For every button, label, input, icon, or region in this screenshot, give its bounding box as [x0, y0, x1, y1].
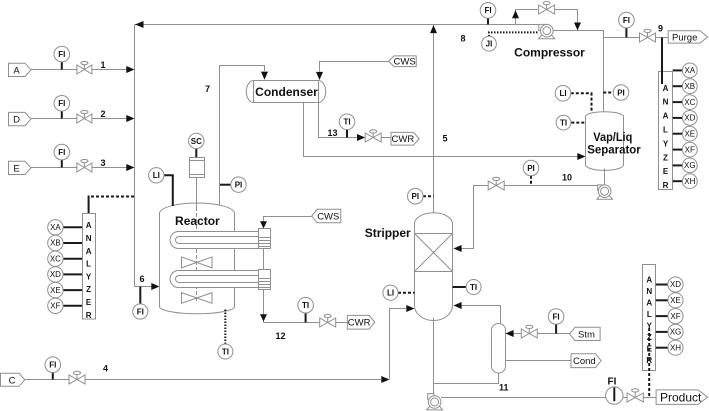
svg-text:FI: FI: [49, 361, 56, 370]
wire stream4 riser to stripper: [390, 309, 407, 380]
temp indicator TI separator: [556, 115, 585, 130]
svg-text:XG: XG: [670, 328, 682, 337]
svg-text:Compressor: Compressor: [514, 46, 585, 60]
svg-text:XB: XB: [684, 82, 695, 91]
svg-text:TI: TI: [560, 119, 567, 128]
arrow stream3 into header: [126, 164, 134, 171]
arrow feed into separator: [577, 153, 585, 160]
wire Stm line: [514, 333, 570, 335]
wire main header vertical: [134, 25, 136, 287]
valve Stm: [521, 325, 537, 338]
svg-text:FI: FI: [58, 148, 65, 157]
analyzer2 XC: [673, 95, 697, 110]
svg-text:L: L: [663, 126, 668, 135]
svg-text:A: A: [646, 275, 652, 284]
arrow recycle into header: [135, 21, 144, 28]
svg-text:R: R: [86, 311, 92, 320]
svg-text:4: 4: [103, 364, 108, 374]
svg-text:2: 2: [101, 109, 106, 119]
arrow CWS into condenser: [316, 72, 323, 80]
svg-text:C: C: [9, 375, 16, 386]
wire recycle top line: [135, 24, 541, 26]
wire product line2: [623, 397, 656, 399]
valve stream 4: [69, 371, 85, 384]
svg-text:L: L: [647, 310, 652, 319]
temp indicator TI reactor: [218, 310, 233, 360]
wire CWS to condenser: [320, 62, 389, 72]
CWS tag reactor: [312, 209, 341, 223]
valve product: [627, 389, 643, 402]
svg-text:TI: TI: [222, 347, 229, 356]
feed tag E: [9, 161, 32, 174]
analyzer2 XD: [673, 111, 697, 126]
arrow stream4 into stripper: [406, 305, 414, 312]
svg-text:XC: XC: [50, 254, 61, 263]
pressure indicator PI reactor: [219, 177, 246, 192]
analyzer2 sample line: [661, 38, 663, 85]
CWR tag reactor: [347, 315, 375, 329]
arrow stream1 into header: [126, 66, 134, 73]
level indicator LI separator: [555, 86, 591, 113]
wire stream 2: [31, 118, 133, 120]
arrow Stm into reboiler: [506, 330, 514, 337]
product tag: [656, 390, 708, 405]
svg-text:Z: Z: [663, 153, 668, 162]
wire stream 5 riser: [433, 25, 435, 214]
svg-text:LI: LI: [153, 171, 160, 180]
svg-text:FI: FI: [608, 376, 617, 387]
feed tag C: [1, 373, 25, 386]
wire purge line: [604, 37, 669, 39]
svg-text:JI: JI: [486, 40, 493, 49]
svg-text:D: D: [13, 115, 20, 126]
svg-text:XH: XH: [670, 343, 681, 352]
analyzer2 XE: [673, 126, 697, 141]
analyzer3 XG: [656, 324, 683, 339]
valve stream 10: [488, 177, 504, 190]
flow indicator FI compressor suction: [480, 3, 496, 25]
arrow into valve 13: [357, 134, 365, 141]
flow indicator FI product: [606, 376, 623, 404]
analyzer1 box: [83, 214, 96, 320]
arrow CWS into block1: [260, 221, 267, 228]
wire condenser outlet to separator: [304, 103, 578, 157]
flow indicator FI stream2: [54, 96, 70, 119]
wire bypass riser: [516, 10, 538, 25]
arrow bypass down into discharge: [574, 23, 581, 31]
wire condenser CWR line 13: [319, 103, 357, 138]
svg-text:XH: XH: [684, 177, 695, 186]
svg-text:N: N: [86, 234, 92, 243]
wire between blocks: [263, 249, 265, 270]
svg-text:XE: XE: [684, 129, 695, 138]
svg-text:TI: TI: [302, 301, 309, 310]
wire stream 10: [462, 186, 599, 249]
svg-text:11: 11: [499, 383, 509, 393]
valve stream 1: [77, 61, 92, 74]
analyzer3 XF: [656, 309, 683, 324]
svg-text:Stripper: Stripper: [365, 226, 411, 240]
svg-text:L: L: [86, 260, 91, 269]
feed tag D: [9, 112, 32, 125]
svg-text:Y: Y: [86, 272, 92, 281]
flow indicator FI stream6: [133, 287, 148, 320]
svg-text:Reactor: Reactor: [175, 214, 220, 228]
svg-text:XC: XC: [684, 98, 695, 107]
analyzer2 XF: [673, 142, 697, 157]
reboiler vessel: [492, 324, 506, 373]
svg-text:CWS: CWS: [317, 212, 339, 223]
svg-text:XF: XF: [50, 302, 60, 311]
svg-text:R: R: [663, 181, 669, 190]
svg-text:A: A: [663, 112, 669, 121]
pump separator: [597, 185, 613, 199]
flow indicator FI stream4: [45, 357, 61, 380]
svg-text:A: A: [646, 298, 652, 307]
svg-text:Cond: Cond: [573, 356, 596, 367]
svg-text:CWR: CWR: [392, 134, 415, 145]
arrow stream 7 into condenser: [261, 72, 268, 80]
svg-text:XF: XF: [685, 145, 695, 154]
valve stream 12: [320, 314, 348, 327]
pump product: [427, 394, 443, 410]
cooling block2: [259, 270, 271, 290]
svg-text:PI: PI: [527, 164, 535, 173]
svg-text:Y: Y: [663, 139, 669, 148]
valve recycle bypass: [539, 1, 578, 14]
wire bypass down leg: [577, 10, 579, 31]
arrow stream10 into stripper: [454, 245, 462, 252]
analyzer3 sample line: [648, 328, 650, 398]
compressor symbol: [538, 24, 554, 38]
svg-text:FI: FI: [623, 16, 630, 25]
wire stream 4: [25, 379, 381, 381]
valve stream 2: [77, 110, 92, 123]
svg-text:CWR: CWR: [348, 318, 371, 329]
reactor coil utube2: [170, 271, 258, 288]
svg-text:XD: XD: [684, 114, 695, 123]
svg-text:A: A: [663, 84, 669, 93]
arrow stream5 up into recycle: [430, 25, 437, 33]
analyzer1 XE: [48, 282, 82, 297]
valve stream 13: [365, 130, 391, 142]
svg-text:1: 1: [101, 60, 106, 70]
svg-text:TI: TI: [343, 118, 350, 127]
svg-text:XD: XD: [50, 270, 61, 279]
temp indicator TI stripper: [453, 280, 482, 295]
valve purge: [640, 29, 656, 42]
valve stream 3: [77, 159, 92, 172]
svg-text:N: N: [663, 98, 669, 107]
separator label: [587, 130, 641, 157]
speed controller SC: [189, 133, 204, 157]
analyzer3 XD: [656, 277, 683, 292]
analyzer3 box: [643, 265, 656, 371]
analyzer1 sample line: [89, 196, 135, 215]
svg-text:FI: FI: [58, 99, 65, 108]
analyzer1 XC: [48, 251, 82, 266]
svg-text:5: 5: [443, 134, 448, 144]
arrow bypass up: [512, 10, 519, 18]
svg-text:E: E: [663, 167, 669, 176]
analyzer2 XG: [673, 158, 697, 173]
reactor impeller2: [182, 293, 213, 304]
Cond tag: [571, 354, 601, 368]
reactor impeller1: [182, 257, 213, 268]
arrow stream6 into reactor: [151, 283, 159, 290]
CWS tag condenser: [389, 56, 417, 68]
svg-text:E: E: [86, 298, 92, 307]
pressure indicator PI stream5: [408, 188, 434, 204]
arrow stream 12: [260, 314, 267, 321]
flow indicator FI stream1: [54, 46, 70, 69]
svg-text:PI: PI: [235, 181, 243, 190]
Stm tag: [570, 327, 601, 340]
analyzer2 XA: [673, 63, 697, 78]
stripper packing: [415, 234, 453, 272]
condenser vessel: [246, 81, 325, 103]
svg-text:XE: XE: [50, 286, 61, 295]
svg-text:XF: XF: [670, 312, 680, 321]
svg-text:XA: XA: [50, 223, 61, 232]
svg-text:FI: FI: [484, 6, 491, 15]
svg-text:SC: SC: [191, 137, 202, 146]
wire stream 11: [433, 318, 435, 397]
svg-text:6: 6: [140, 274, 145, 284]
svg-text:Product: Product: [660, 390, 702, 404]
wire stream 12 horizontal: [264, 322, 320, 324]
svg-text:7: 7: [205, 84, 210, 94]
svg-text:FI: FI: [58, 50, 65, 59]
wire stream 3: [31, 167, 133, 169]
svg-text:Stm: Stm: [578, 329, 595, 340]
analyzer1 XB: [48, 235, 82, 250]
wire stream 6 into reactor: [135, 286, 159, 288]
svg-text:TI: TI: [470, 283, 477, 292]
svg-text:FI: FI: [553, 312, 560, 321]
wire reboiler bottoms: [434, 373, 499, 384]
analyzer2 XH: [673, 174, 697, 189]
analyzer3 XE: [656, 293, 683, 308]
svg-text:XA: XA: [684, 66, 695, 75]
svg-text:Condenser: Condenser: [255, 85, 318, 99]
pressure indicator PI separator: [603, 85, 629, 101]
wire separator bottoms: [604, 169, 606, 186]
wire reboiler return: [461, 306, 501, 324]
reactor vessel: [160, 203, 235, 314]
flow indicator FI purge: [619, 12, 635, 37]
svg-text:N: N: [646, 287, 652, 296]
CWR tag condenser: [391, 132, 419, 145]
svg-text:XE: XE: [670, 296, 681, 305]
reactor coil utube1: [170, 232, 259, 249]
arrow stream4 into riser: [381, 376, 389, 383]
temp indicator TI stream12: [298, 297, 314, 322]
level indicator LI stripper: [383, 285, 415, 300]
svg-text:Z: Z: [86, 285, 91, 294]
svg-text:3: 3: [101, 158, 106, 168]
svg-text:XB: XB: [50, 239, 61, 248]
level indicator LI reactor: [149, 168, 173, 206]
svg-text:XD: XD: [670, 280, 681, 289]
flow indicator FI Stm: [548, 309, 564, 334]
svg-text:FI: FI: [137, 307, 144, 316]
svg-text:9: 9: [658, 24, 663, 34]
svg-text:10: 10: [562, 173, 572, 183]
temp indicator TI condenser: [339, 114, 355, 138]
svg-text:PI: PI: [412, 192, 420, 201]
svg-text:12: 12: [276, 331, 286, 341]
arrow stream2 into header: [126, 115, 134, 122]
reactor agitator shaft: [196, 178, 198, 208]
flow indicator FI stream3: [54, 144, 70, 167]
speed indicator JI: [482, 32, 538, 51]
svg-text:CWS: CWS: [394, 56, 416, 67]
svg-text:A: A: [13, 65, 20, 76]
analyzer3 XH: [656, 340, 683, 355]
cooling block1: [259, 229, 271, 249]
analyzer2 XB: [673, 79, 697, 94]
wire CWS to reactor: [264, 217, 312, 228]
separator vessel: [586, 112, 624, 171]
agitator motor: [190, 158, 205, 178]
wire Cond line: [506, 360, 572, 362]
purge tag: [668, 31, 707, 44]
wire stream 12 down: [263, 290, 265, 323]
pressure indicator PI stream10: [523, 160, 539, 185]
svg-text:LI: LI: [559, 89, 566, 98]
feed tag A: [9, 63, 32, 76]
svg-text:Separator: Separator: [587, 142, 641, 156]
wire stream 1: [31, 69, 133, 71]
wire compressor discharge: [553, 31, 603, 113]
svg-text:8: 8: [461, 34, 466, 44]
svg-text:Purge: Purge: [672, 33, 697, 44]
svg-text:A: A: [86, 221, 92, 230]
svg-text:A: A: [86, 247, 92, 256]
analyzer1 XF: [48, 298, 82, 313]
svg-text:LI: LI: [387, 289, 394, 298]
analyzer1 XA: [48, 220, 82, 235]
wire product line: [441, 397, 606, 399]
svg-text:13: 13: [328, 128, 338, 138]
wire stream 7: [220, 66, 265, 206]
stripper vessel: [415, 213, 453, 321]
analyzer1 XD: [48, 267, 82, 282]
svg-text:PI: PI: [617, 88, 625, 97]
analyzer2 box: [659, 72, 673, 191]
svg-text:XG: XG: [684, 161, 696, 170]
svg-text:E: E: [13, 163, 19, 174]
arrow reboiler return into stripper: [454, 302, 462, 309]
